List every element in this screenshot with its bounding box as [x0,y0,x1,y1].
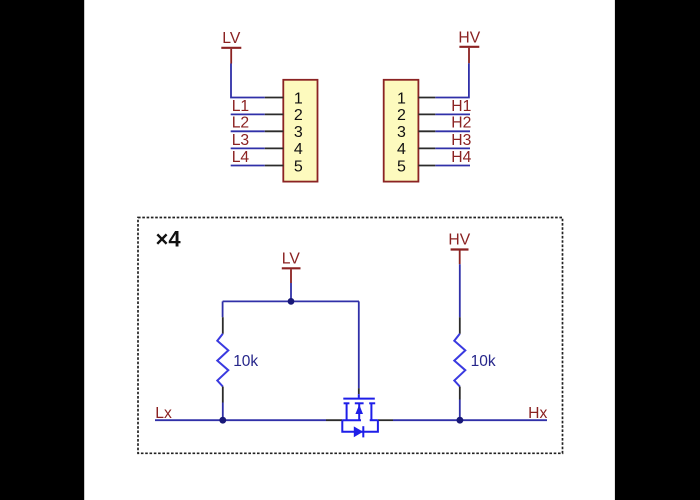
supply LV (top) [221,30,241,63]
resistor R1 pin top [222,317,224,334]
supply HV (cell) [448,232,470,265]
wire LV stub down to node [290,283,292,301]
resistor R2 body 10k [454,334,465,387]
transistor Q1 gate pin [358,388,360,394]
svg-text:4: 4 [294,141,303,158]
wire net L4 [231,165,265,167]
junction node Hx / R2 [457,417,464,424]
wire net H1 [435,113,470,115]
connector J1 pin numbers [294,90,303,175]
transistor Q1 drain pin [378,419,393,421]
wire net L2 [231,130,265,132]
wire R2 bottom lead [459,400,461,421]
connector J1 body (left) [283,80,317,182]
connector J2 pin stubs [418,98,435,166]
wire LV to pin 1 of left connector [231,64,265,98]
svg-text:1: 1 [294,90,303,107]
svg-text:H1: H1 [451,98,471,115]
resistor R1 pin bottom [222,387,224,403]
svg-text:2: 2 [397,107,406,124]
wire HV down to R2 [459,264,461,317]
svg-text:L1: L1 [232,98,249,115]
connector J1 pin stubs [265,98,284,166]
wire R1 top lead (blue) [222,301,224,317]
svg-text:5: 5 [397,158,406,175]
svg-text:10k: 10k [233,353,258,370]
connector J2 pin numbers [397,90,406,175]
wire Q1 drain to Hx [393,419,547,421]
wire Lx to Q1 source [155,419,326,421]
wire net L1 [231,113,265,115]
svg-text:2: 2 [294,107,303,124]
junction node Lx / R1 [219,417,226,424]
wire gate rail down from top rail [358,301,360,388]
wire HV to pin 1 of right connector [435,63,469,97]
wire top rail (R1 top to gate corner) [223,300,359,302]
supply HV (top) [458,30,480,64]
wire net L3 [231,147,265,149]
svg-text:3: 3 [294,124,303,141]
wire R1 bottom lead [222,403,224,421]
supply LV (cell) [282,250,301,283]
svg-text:3: 3 [397,124,406,141]
svg-text:L4: L4 [232,149,250,166]
svg-text:LV: LV [282,250,301,267]
repeated-cell dashed box [138,218,563,454]
wire net H4 [435,165,470,167]
svg-text:4: 4 [397,141,406,158]
transistor Q1 source pin [326,419,342,421]
svg-text:H2: H2 [451,115,471,132]
transistor Q1 (N-channel MOSFET with body diode) [342,394,378,437]
svg-text:1: 1 [397,90,406,107]
resistor R2 pin top [459,317,461,334]
resistor R2 pin bottom [459,387,461,400]
svg-text:L2: L2 [232,115,249,132]
wire net H2 [435,130,470,132]
svg-text:10k: 10k [471,353,496,370]
junction node at LV rail [288,298,295,305]
svg-text:5: 5 [294,158,303,175]
wire net H3 [435,147,470,149]
svg-text:HV: HV [448,232,470,249]
resistor R1 body 10k [217,334,228,387]
svg-text:HV: HV [458,30,480,47]
svg-text:×4: ×4 [156,226,182,251]
connector J2 body (right) [384,80,419,182]
svg-text:LV: LV [222,30,241,47]
svg-text:L3: L3 [232,132,250,149]
svg-text:H3: H3 [451,132,471,149]
svg-text:H4: H4 [451,149,471,166]
